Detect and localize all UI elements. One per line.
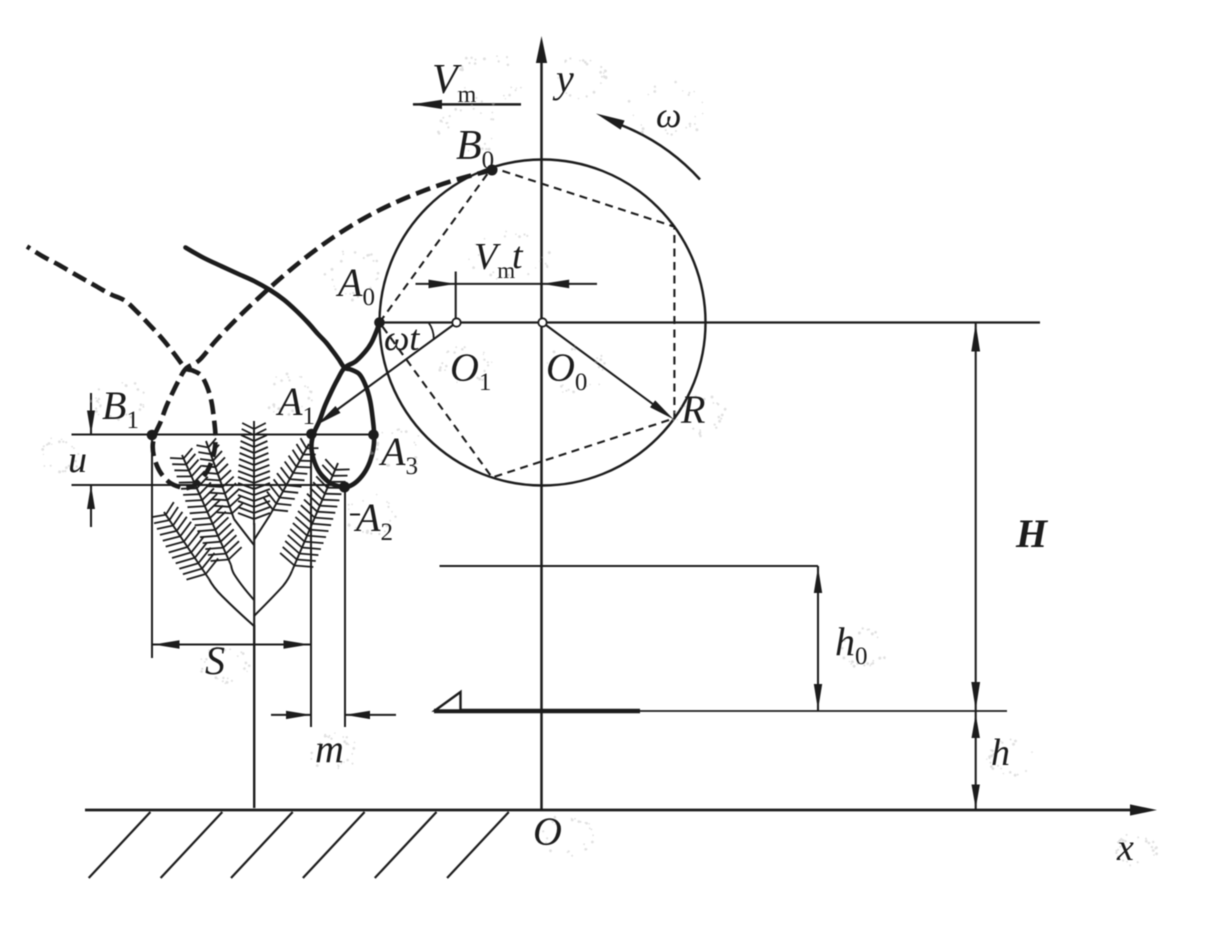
label y <box>552 56 574 101</box>
inscribed pentagon (dashed) <box>380 168 675 478</box>
label omega-t <box>384 318 420 358</box>
tree branch lower-right <box>254 571 292 616</box>
label O (origin) <box>533 809 562 854</box>
label x <box>1116 827 1134 869</box>
canopy top reference line <box>440 565 819 567</box>
point A1 <box>306 429 317 440</box>
y-axis <box>540 48 543 810</box>
svg-text:m: m <box>315 726 344 771</box>
dimension u upper arrow <box>87 393 95 435</box>
label B1 <box>102 383 139 434</box>
tree frond center <box>238 421 270 525</box>
cutter bar thin segment <box>640 710 1007 712</box>
tree frond upper-left <box>197 438 244 519</box>
dimension S line <box>152 640 311 648</box>
svg-text:H: H <box>1015 511 1049 556</box>
svg-text:y: y <box>552 56 574 101</box>
dimension m arrows <box>271 711 396 719</box>
cutter blade hollow triangle <box>435 692 461 711</box>
svg-text:ωt: ωt <box>384 318 420 358</box>
main horizontal line through O0 <box>380 321 1041 323</box>
label R <box>680 387 705 432</box>
label t of Vmt <box>512 235 524 277</box>
omega rotation arrow <box>596 114 700 180</box>
tick before A2 label <box>350 514 360 516</box>
point A2 <box>339 482 350 493</box>
rotor arm O1 to A1 <box>317 323 457 425</box>
dimension u lower arrow <box>87 485 95 527</box>
label u <box>68 439 87 481</box>
tree branch upper-right <box>254 515 270 540</box>
tree frond lower-right <box>280 459 350 571</box>
label Vm (velocity) <box>432 57 477 108</box>
tree branch upper-left <box>234 519 254 545</box>
dimension h0 line <box>814 566 822 711</box>
label S <box>205 638 225 683</box>
point B1 <box>147 430 158 441</box>
angle omega-t arc <box>429 323 434 340</box>
label A3 <box>378 429 418 480</box>
cutter bar thick segment <box>434 709 640 713</box>
svg-text:h: h <box>991 732 1010 774</box>
node O1 <box>452 318 460 326</box>
trochoid path of blade tip B (dashed) <box>27 170 492 488</box>
extension line from B1 <box>151 436 153 658</box>
tick at O1 <box>455 272 457 323</box>
tree frond lower-left <box>151 502 218 579</box>
tree branch mid-left <box>231 565 254 600</box>
label m <box>315 726 344 771</box>
svg-text:O: O <box>533 809 562 854</box>
rotor circle <box>380 160 706 486</box>
svg-text:R: R <box>680 387 705 432</box>
dimension Vmt line <box>416 280 598 289</box>
label h <box>991 732 1010 774</box>
tree frond mid-left <box>170 448 242 565</box>
x-axis ground line <box>85 809 1146 812</box>
label O0 <box>546 345 587 396</box>
point A0 <box>374 317 385 328</box>
svg-text:t: t <box>512 235 524 277</box>
y-axis arrowhead <box>536 36 547 63</box>
svg-text:u: u <box>68 439 87 481</box>
dimension H line <box>971 323 980 712</box>
cutting height line (through B1 A1 A3) <box>72 433 379 435</box>
x-axis arrowhead <box>1130 804 1157 815</box>
label B0 <box>456 123 494 174</box>
velocity Vm arrow <box>412 100 521 109</box>
ground hatching <box>89 812 509 878</box>
point A3 <box>368 430 379 441</box>
label omega <box>656 95 681 135</box>
point B0 <box>487 165 498 176</box>
label A1 <box>275 379 315 430</box>
extension line from A1 <box>310 435 312 727</box>
label Vmt <box>474 236 515 283</box>
extension line from A2 <box>344 488 346 727</box>
label A0 <box>335 260 375 311</box>
trochoid path of blade tip A (solid) <box>186 248 380 488</box>
dimension h line <box>972 711 980 810</box>
svg-text:x: x <box>1116 827 1134 869</box>
svg-text:S: S <box>205 638 225 683</box>
tree trunk <box>253 625 255 808</box>
lower cut depth line <box>72 484 345 486</box>
label A2 <box>353 495 393 546</box>
tree trunk upper <box>253 523 255 625</box>
tree frond upper-right <box>264 438 319 515</box>
radius arrow O0 to R <box>543 323 674 420</box>
label O1 <box>450 345 491 396</box>
svg-text:ω: ω <box>656 95 681 135</box>
label H <box>1015 511 1049 556</box>
tree branch lower-left <box>209 579 254 626</box>
node O0 <box>538 318 546 326</box>
label h0 <box>835 619 868 670</box>
